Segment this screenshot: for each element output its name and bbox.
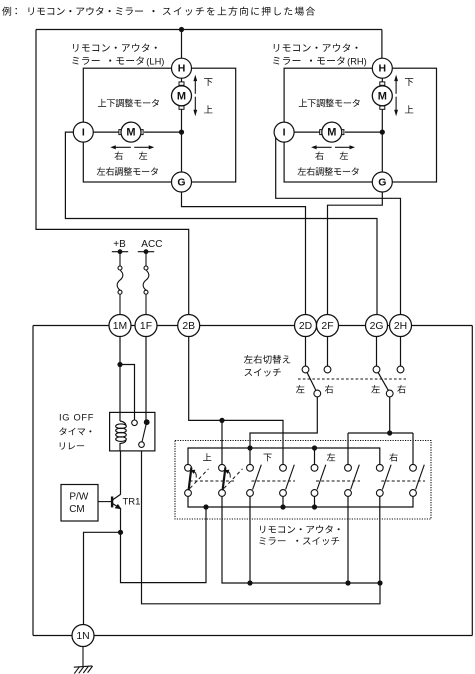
- title text 例: [2, 7, 11, 16]
- wire M to G (RH): [381, 109, 383, 172]
- label 上下調整モータ (RH): [299, 99, 360, 108]
- selector contact x=305.5: [302, 366, 309, 373]
- connector 2G: [366, 315, 388, 337]
- wire M2 to center node (LH): [144, 131, 181, 133]
- wire 1M down to relay coil: [119, 337, 121, 422]
- label タイマ・: [59, 427, 91, 435]
- wire C feed bus (cols 2,3,6,7 lower): [222, 496, 380, 583]
- label 左右切替えスイッチ line2: [245, 368, 281, 376]
- wire 1F down to relay common contact: [145, 337, 147, 422]
- wire connector stub x=305.5: [305, 337, 307, 367]
- terminal G (RH): [372, 172, 392, 192]
- P/W CM box: [61, 485, 98, 522]
- connector 2H: [390, 315, 412, 337]
- switch upper contact col3: [247, 464, 254, 471]
- terminal H (LH): [172, 58, 192, 78]
- switch pair 1 mechanical link dashed: [190, 480, 235, 482]
- terminal I (LH): [73, 122, 93, 142]
- wire bus A to col5 top: [314, 448, 316, 464]
- switch upper contact col6: [345, 464, 352, 471]
- label 上下調整モータ (LH): [98, 99, 159, 108]
- label line2: [259, 537, 285, 545]
- switch upper contact col8: [410, 464, 417, 471]
- feed dot +B: [118, 249, 123, 254]
- switch pair 2 mechanical link dashed: [252, 480, 296, 482]
- wire G(RH) to 2F: [328, 192, 383, 315]
- arrow right (LH): [134, 145, 154, 149]
- wire row right drop to 1N line: [471, 326, 473, 636]
- svg-text:M: M: [177, 90, 186, 102]
- label 左右切替えスイッチ line1: [244, 355, 290, 364]
- fuse ACC: [143, 252, 149, 315]
- wire relay contact to wire C: [142, 451, 381, 604]
- arrow left (LH): [110, 145, 131, 149]
- connector 2B: [178, 315, 200, 337]
- label 上 (RH): [405, 105, 413, 113]
- wire 2B feed to col2 top: [221, 420, 223, 464]
- svg-text:2H: 2H: [394, 321, 407, 332]
- arrow right (RH): [335, 145, 355, 149]
- label 左 (LH): [139, 151, 147, 159]
- junction 1M branch: [117, 362, 122, 367]
- wire I(RH) to 2H: [276, 132, 401, 314]
- junction selector2 bar: [387, 430, 392, 435]
- switch lower contact col6: [345, 490, 352, 497]
- label 右 selector1: [325, 385, 333, 394]
- svg-text:2D: 2D: [299, 321, 312, 332]
- svg-text:P/W: P/W: [69, 492, 88, 503]
- wire M to G (LH): [181, 109, 183, 172]
- connector 1F: [135, 315, 157, 337]
- selector common 1: [314, 390, 321, 397]
- label 下 switch pair: [264, 454, 272, 462]
- up-down motor M (LH): [172, 82, 192, 109]
- wire bar to col6 top: [347, 433, 349, 464]
- switch upper contact col4: [280, 464, 287, 471]
- svg-text:M: M: [378, 90, 387, 102]
- transistor TR1: [112, 451, 121, 532]
- junction emitter node: [118, 530, 123, 535]
- RH header line2: [273, 57, 300, 65]
- wire ground bus right segment: [94, 635, 473, 637]
- LH mirror motor block frame: [83, 68, 235, 182]
- label 右 (LH): [114, 151, 122, 159]
- switch upper contact col2: [219, 464, 226, 471]
- RH header line1: [274, 43, 358, 51]
- wire 1N to ground: [82, 647, 84, 667]
- left-right motor M2 (LH): [119, 122, 143, 142]
- wire connector stub x=376.5: [376, 337, 378, 367]
- selector blade 1: [307, 372, 316, 390]
- switch lower contact col7: [376, 490, 383, 497]
- wire emitter node to 1N: [84, 532, 121, 625]
- svg-text:(LH): (LH): [146, 56, 164, 66]
- switch lower contact col5: [311, 490, 318, 497]
- svg-text:M: M: [126, 127, 135, 139]
- wire col3 lower drop: [249, 496, 251, 583]
- wire M2 to center node (RH): [345, 131, 382, 133]
- junction bus A col5: [312, 445, 317, 450]
- switch blade col8 (open): [416, 465, 425, 490]
- switch lower contact col8: [410, 490, 417, 497]
- label 右 switch pair: [389, 453, 397, 461]
- wire top bus to H(RH): [381, 30, 383, 59]
- wire col5 lower to bus B: [314, 496, 316, 507]
- svg-text:ACC: ACC: [141, 239, 162, 250]
- label 上 (LH): [204, 105, 212, 113]
- selector contact x=327.5: [324, 366, 331, 373]
- svg-text:(RH): (RH): [347, 56, 367, 66]
- feed tick ACC: [138, 251, 154, 253]
- relay coil: [116, 421, 127, 451]
- wire H to M (RH): [381, 78, 383, 82]
- fuse +B: [117, 252, 123, 315]
- switch pair 3 mechanical link dashed: [316, 480, 360, 482]
- junction node M2/M/G (LH): [179, 130, 184, 135]
- connector 1M: [109, 315, 131, 337]
- LH header line1: [73, 43, 157, 51]
- junction bus B col4: [280, 504, 285, 509]
- wire 2B to cols 2 and 4: [189, 337, 283, 465]
- label 左右調整モータ (RH): [298, 167, 359, 176]
- arrow down (RH): [394, 97, 398, 117]
- label 左 selector2: [371, 385, 380, 393]
- switch blade col2 (pressed, closed): [223, 468, 243, 491]
- wire bar to col8 top: [412, 433, 414, 464]
- wire 1M branch to relay NC contact: [120, 365, 135, 421]
- arrow up (RH): [394, 75, 398, 94]
- svg-text:+B: +B: [113, 239, 126, 250]
- junction wire C col6: [345, 580, 350, 585]
- wire col4 lower to bus B: [282, 496, 284, 507]
- label 下 (RH): [405, 78, 413, 86]
- left-right motor M2 (RH): [320, 122, 344, 142]
- switch lower contact col2: [219, 490, 226, 497]
- bus A (upper contacts): [188, 448, 380, 464]
- junction wire C col7 / relay feed: [377, 580, 382, 585]
- switch blade col1 (pressed, closed): [189, 468, 209, 491]
- junction bus A col3: [247, 445, 252, 450]
- wire I to M2 (LH): [93, 131, 119, 133]
- wire H bus (top): [36, 29, 382, 31]
- wire connector row line: [33, 325, 472, 327]
- wire top bus to H(LH): [181, 30, 183, 59]
- arrow up (LH): [193, 75, 197, 94]
- terminal I (RH): [274, 122, 294, 142]
- selector contact x=376.5: [373, 366, 380, 373]
- bus B (lower contacts, to ground side): [188, 496, 413, 507]
- connector 2F: [317, 315, 339, 337]
- wire G(LH) to 2D: [182, 192, 306, 315]
- LH header line2: [72, 57, 99, 65]
- svg-text:CM: CM: [69, 504, 85, 515]
- wire I(LH) to 2G: [65, 132, 377, 314]
- label 左 switch pair: [327, 453, 335, 461]
- svg-text:1N: 1N: [76, 631, 89, 642]
- svg-text:2B: 2B: [182, 321, 195, 332]
- wire ground bus left segment: [33, 635, 73, 637]
- ground symbol: [74, 666, 93, 674]
- junction node M2/M/G (RH): [380, 130, 385, 135]
- wire col6 lower drop: [347, 496, 349, 583]
- junction 2B feed col2: [219, 418, 224, 423]
- label 左右調整モータ (LH): [97, 167, 158, 176]
- svg-text:H: H: [379, 63, 387, 75]
- wire selector2 common down: [389, 397, 391, 433]
- junction bus B col5: [312, 504, 317, 509]
- terminal G (LH): [172, 172, 192, 192]
- wire row left drop to 1N: [32, 326, 34, 636]
- svg-text:2F: 2F: [321, 321, 333, 332]
- svg-text:I: I: [283, 126, 286, 138]
- relay blade: [142, 425, 146, 442]
- svg-text:G: G: [177, 176, 185, 188]
- switch blade col4 (open): [286, 465, 295, 490]
- label 左 (RH): [340, 151, 348, 159]
- switch upper contact col7: [376, 464, 383, 471]
- feed dot ACC: [144, 249, 149, 254]
- wire col7 lower drop: [379, 496, 381, 583]
- switch blade col3 (open): [253, 465, 262, 490]
- wire selector1 common to bus A / col3: [250, 397, 317, 465]
- relay contact NO (closed, filled): [144, 419, 150, 425]
- switch upper contact col1: [185, 464, 192, 471]
- switch lower contact col1: [185, 490, 192, 497]
- svg-text:1F: 1F: [140, 321, 152, 332]
- svg-text:1M: 1M: [113, 321, 127, 332]
- svg-text:I: I: [82, 126, 85, 138]
- terminal H (RH): [372, 58, 392, 78]
- switch lower contact col3: [247, 490, 254, 497]
- wire H to M (LH): [181, 78, 183, 82]
- wire selector2 bar: [348, 432, 413, 434]
- wire connector stub x=327.5: [327, 337, 329, 367]
- RH mirror motor block frame: [284, 68, 436, 182]
- switch blade col6 (open): [351, 465, 360, 490]
- label リモコン・アウタ・ミラー・スイッチ line1: [260, 525, 340, 533]
- switch upper contact col5: [311, 464, 318, 471]
- selector mechanical link dashed: [298, 378, 406, 380]
- relay contact NC (open circle): [132, 420, 138, 426]
- relay moving contact: [139, 442, 145, 448]
- svg-text:G: G: [378, 176, 386, 188]
- wire connector stub x=400.5: [400, 337, 402, 367]
- junction H(LH) on top bus: [179, 27, 184, 32]
- mirror switch dashed box: [175, 441, 431, 520]
- svg-text:2G: 2G: [370, 321, 384, 332]
- arrow left (RH): [311, 145, 332, 149]
- label リレー: [60, 442, 84, 449]
- switch lower contact col4: [280, 490, 287, 497]
- svg-text:M: M: [327, 127, 336, 139]
- label 上 switch pair: [203, 453, 211, 461]
- relay box IG OFF timer relay: [110, 412, 155, 451]
- svg-text:H: H: [178, 63, 186, 75]
- connector 2D: [295, 315, 317, 337]
- up-down motor M (RH): [372, 82, 392, 109]
- svg-text:TR1: TR1: [123, 496, 141, 507]
- switch blade col7 (open): [382, 465, 391, 490]
- junction wire C col3: [247, 580, 252, 585]
- arrow down (LH): [193, 97, 197, 117]
- feed tick +B: [112, 251, 128, 253]
- junction bus B riser: [203, 504, 208, 509]
- connector 1N: [72, 625, 94, 647]
- switch blade col5 (open): [317, 465, 326, 490]
- wire P/W CM to TR1 base: [98, 501, 111, 503]
- wire bus B riser to emitter node: [121, 507, 207, 583]
- label 下 (LH): [204, 78, 212, 86]
- switch pair 4 mechanical link dashed: [381, 480, 425, 482]
- svg-text:IG OFF: IG OFF: [59, 412, 94, 422]
- label 右 (RH): [315, 151, 323, 159]
- wire I to M2 (RH): [294, 131, 320, 133]
- label 左 selector1: [296, 385, 305, 393]
- wire left H-bus drop to 2B: [36, 30, 189, 315]
- selector contact x=400.5: [397, 366, 404, 373]
- label 右 selector2: [397, 385, 405, 394]
- selector common 2: [386, 390, 393, 397]
- selector blade 2: [378, 372, 388, 390]
